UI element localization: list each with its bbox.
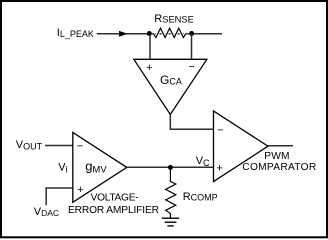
svg-text:−: − <box>217 124 223 136</box>
svg-text:RSENSE: RSENSE <box>154 13 193 25</box>
svg-text:VDAC: VDAC <box>34 206 59 218</box>
svg-text:+: + <box>216 163 222 175</box>
svg-text:+: + <box>77 184 83 196</box>
svg-text:ERROR AMPLIFIER: ERROR AMPLIFIER <box>68 205 159 216</box>
svg-text:−: − <box>77 141 83 153</box>
svg-text:+: + <box>146 62 152 74</box>
svg-text:PWM: PWM <box>264 151 289 162</box>
svg-text:−: − <box>189 61 195 73</box>
svg-text:COMPARATOR: COMPARATOR <box>242 162 316 173</box>
svg-text:IL_PEAK: IL_PEAK <box>57 27 94 39</box>
svg-text:Vi: Vi <box>58 162 67 175</box>
svg-text:RCOMP: RCOMP <box>183 191 218 203</box>
svg-text:VOUT: VOUT <box>16 139 43 151</box>
svg-text:VC: VC <box>196 155 210 168</box>
svg-text:VOLTAGE-: VOLTAGE- <box>91 192 139 203</box>
